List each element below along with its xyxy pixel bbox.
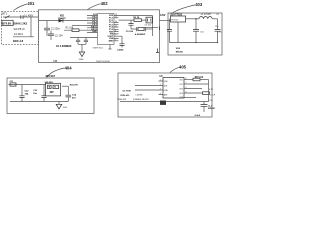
capacitor C13: [33, 85, 46, 102]
svg-text:RXMOD: RXMOD: [208, 108, 216, 110]
IC U5: [163, 78, 184, 99]
svg-text:R2 1K: R2 1K: [133, 17, 140, 19]
svg-text:U6 TRM: U6 TRM: [123, 90, 131, 92]
svg-text:VO4: VO4: [179, 93, 183, 95]
U2 right pin numbers: [115, 14, 117, 41]
svg-text:L4005: L4005: [117, 49, 124, 52]
wire net right rail: [152, 16, 154, 37]
key switch SB1: [46, 83, 61, 96]
svg-text:BT1: BT1: [2, 12, 8, 16]
wire U5 out2: [184, 83, 209, 85]
svg-text:R4 4.7K: R4 4.7K: [70, 83, 78, 86]
box 401 battery module (dashed): [2, 12, 39, 45]
switch S2: [146, 17, 153, 23]
capacitor C10: [215, 19, 222, 43]
capacitor C8: [193, 19, 204, 43]
resistor R2: [133, 17, 141, 22]
svg-text:GND: GND: [79, 59, 84, 61]
connector J1 pin ticks: [21, 15, 23, 18]
svg-text:RXB-433: RXB-433: [120, 94, 130, 97]
wire right rail 405: [208, 80, 210, 102]
svg-text:SW-PB LK: SW-PB LK: [14, 28, 26, 31]
U5 right pin names: [179, 79, 184, 99]
callout 403: [172, 2, 203, 13]
svg-text:4.000MHZ: 4.000MHZ: [135, 33, 146, 36]
U2 left pin wires: [87, 16, 98, 33]
wire U2 pin14 net: [119, 19, 135, 21]
svg-text:X1 4.000MHZ: X1 4.000MHZ: [56, 45, 72, 48]
wire R2 to S2: [142, 19, 147, 21]
svg-text:K2 9012: K2 9012: [14, 33, 24, 36]
wire 402 to 403: [160, 20, 171, 22]
ground arrow 404: [56, 102, 68, 109]
svg-text:3: 3: [160, 89, 161, 91]
node junction gnd bus: [195, 42, 196, 43]
capacitor C3: [77, 37, 79, 40]
svg-text:2: 2: [160, 84, 161, 86]
svg-text:SB1 KEY: SB1 KEY: [46, 76, 56, 78]
node junction: [195, 18, 196, 19]
crystal X2: [131, 27, 153, 36]
wire battery output: [3, 16, 39, 18]
svg-text:1: 1: [160, 80, 161, 82]
svg-text:C6 104: C6 104: [145, 25, 152, 27]
svg-text:C1 220u: C1 220u: [51, 27, 61, 30]
svg-text:11: 11: [115, 26, 117, 28]
wire bottom bus 405: [120, 101, 209, 103]
svg-text:433MHZ RF-RX: 433MHZ RF-RX: [133, 99, 149, 101]
box 404 key module: [7, 78, 94, 114]
polarized cap C17 mark: [156, 49, 159, 53]
U5 left pin names: [164, 81, 169, 97]
svg-text:15: 15: [115, 17, 117, 19]
crystal X1 network: [56, 37, 98, 60]
svg-text:IR333C: IR333C: [176, 52, 184, 54]
svg-text:R6 5.1K: R6 5.1K: [195, 77, 204, 79]
svg-text:C5 104: C5 104: [126, 30, 134, 33]
battery pack BT1: [2, 20, 13, 25]
wire U3 out: [186, 18, 200, 20]
svg-text:GND: GND: [164, 90, 169, 92]
svg-text:GND: GND: [63, 107, 68, 109]
svg-text:BT4.8V: BT4.8V: [2, 22, 11, 26]
svg-text:C2 104: C2 104: [55, 34, 63, 37]
svg-text:2.2uF: 2.2uF: [195, 115, 201, 117]
svg-text:GND: GND: [92, 31, 97, 33]
resonator Y1: [114, 36, 125, 51]
svg-text:SW-K1 2K2: SW-K1 2K2: [13, 22, 27, 26]
wire battery return: [13, 36, 34, 38]
component dark block: [160, 101, 166, 105]
wire VCC rail: [39, 20, 88, 22]
svg-text:VDD: VDD: [164, 81, 169, 83]
svg-text:403: 403: [195, 2, 203, 7]
wire DIN: [135, 85, 163, 87]
svg-text:4R7: 4R7: [50, 91, 55, 94]
capacitor C15: [201, 102, 216, 112]
wire U5 out5: [184, 97, 196, 99]
svg-text:401: 401: [27, 1, 35, 6]
inductor L1: [199, 14, 212, 19]
svg-text:TRM-433: TRM-433: [117, 99, 127, 101]
svg-text:AIN0: AIN0: [109, 39, 115, 42]
svg-text:9: 9: [115, 30, 116, 32]
wire ground bus 403: [170, 42, 218, 44]
wire key sense: [72, 24, 87, 26]
svg-text:47u: 47u: [219, 31, 222, 33]
svg-text:13: 13: [115, 21, 117, 23]
svg-text:1.4MHZ: 1.4MHZ: [135, 94, 143, 96]
capacitor C14: [66, 86, 77, 101]
U2 left net labels: [91, 14, 98, 33]
wire link: [30, 17, 32, 37]
callout 402: [88, 1, 109, 10]
svg-text:C10: C10: [215, 26, 218, 28]
switch S1: [5, 16, 10, 19]
U2 right pin stubs: [114, 16, 119, 41]
box 403 power module: [168, 13, 222, 55]
wire xtal ground: [78, 44, 86, 51]
wire L1 to C10: [212, 18, 217, 20]
svg-text:5: 5: [115, 40, 116, 42]
callout 405: [170, 64, 187, 72]
box 402 MCU module: [39, 10, 160, 63]
svg-text:VO3: VO3: [179, 88, 183, 90]
svg-text:4.7K: 4.7K: [209, 89, 214, 91]
U5 right pin numbers: [186, 78, 187, 94]
capacitor C11: [10, 81, 16, 86]
svg-text:IN OUT: IN OUT: [172, 19, 180, 21]
ground symbol: [79, 52, 84, 57]
wire ground bus 404: [10, 101, 68, 103]
callout 401: [14, 1, 36, 10]
svg-text:405: 405: [179, 64, 187, 69]
regulator U3: [171, 16, 186, 22]
resistor R1: [64, 27, 88, 32]
U5 left pin numbers: [160, 80, 161, 96]
capacitor C2: [48, 31, 63, 41]
svg-text:VO1: VO1: [179, 79, 183, 81]
wire U5 out4: [184, 92, 203, 94]
wire U3 gnd pin: [177, 22, 179, 43]
wire U5 out3: [184, 88, 202, 90]
svg-text:402: 402: [101, 1, 109, 6]
resistor R6: [193, 77, 204, 81]
svg-text:SN8P2501BDB: SN8P2501BDB: [96, 61, 110, 63]
capacitor C4: [85, 37, 87, 40]
wire xtal feed: [70, 36, 98, 38]
resistor R7: [203, 89, 216, 97]
svg-text:1N4007: 1N4007: [58, 17, 66, 20]
wire R6 to rail: [200, 79, 209, 81]
capacitor C12: [19, 85, 29, 102]
svg-text:R1 10K: R1 10K: [66, 27, 74, 30]
IC U2 MCU: [98, 14, 115, 45]
svg-text:BOX-4.8: BOX-4.8: [13, 39, 24, 43]
svg-text:4: 4: [160, 93, 161, 95]
capacitor C6: [144, 25, 159, 30]
wire U5 out1: [184, 79, 193, 81]
wire GND in: [135, 89, 163, 91]
svg-text:10u: 10u: [33, 93, 37, 95]
capacitor C1: [44, 21, 61, 36]
capacitor C5: [126, 20, 134, 33]
diode VD1: [58, 15, 66, 22]
wire key rail: [9, 84, 47, 86]
svg-text:2.2uF: 2.2uF: [210, 95, 216, 97]
svg-text:0.1 400V: 0.1 400V: [24, 15, 34, 17]
capacitor C7: [167, 19, 172, 43]
callout 404: [47, 65, 73, 77]
wire U2 vss stub: [109, 45, 112, 50]
wire U2 pin16 net: [119, 15, 153, 17]
svg-text:VO2: VO2: [179, 84, 183, 86]
svg-text:3.6V: 3.6V: [160, 13, 166, 17]
svg-text:U2: U2: [54, 59, 58, 63]
box 405 receiver module: [118, 73, 212, 117]
svg-text:404: 404: [65, 65, 73, 70]
svg-text:L1 470uH: L1 470uH: [201, 14, 211, 16]
U5 left pin stubs: [159, 81, 164, 95]
svg-text:SN8P2501: SN8P2501: [93, 48, 104, 50]
wire key to C14: [62, 85, 68, 87]
U2 right pin names: [108, 15, 115, 42]
